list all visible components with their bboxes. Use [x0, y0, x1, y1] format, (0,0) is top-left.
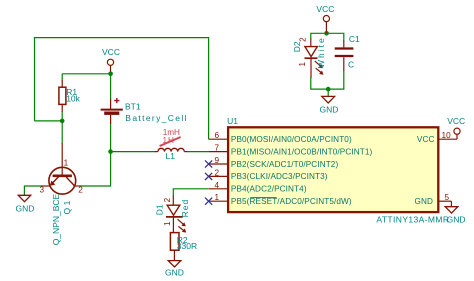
wire junction to L1	[111, 151, 156, 153]
svg-text:2: 2	[78, 185, 83, 194]
junction D2 loop top	[324, 31, 329, 36]
svg-text:BT1: BT1	[125, 102, 141, 112]
svg-text:L1: L1	[166, 151, 176, 161]
svg-text:4: 4	[215, 181, 220, 190]
wire D2 C1 loop top	[311, 33, 344, 41]
svg-text:U1: U1	[227, 116, 238, 126]
inductor L1	[155, 148, 187, 161]
LED D2	[292, 36, 326, 78]
wire left frame bottom	[35, 120, 63, 122]
junction R1 bottom	[60, 119, 65, 124]
junction battery L1	[108, 149, 113, 154]
junction VCC battery	[108, 72, 113, 77]
svg-text:PB4(ADC2/PCINT4): PB4(ADC2/PCINT4)	[231, 185, 307, 194]
ground top-right	[320, 96, 339, 114]
capacitor C1	[335, 34, 360, 71]
svg-text:Battery_Cell: Battery_Cell	[125, 113, 188, 123]
svg-text:White: White	[316, 36, 326, 68]
svg-text:10k: 10k	[66, 93, 80, 103]
wire D2 C1 loop bottom	[311, 71, 344, 90]
wire GND stub top-right	[327, 89, 329, 96]
U1 pin 7	[209, 151, 228, 153]
battery BT1	[101, 98, 188, 124]
svg-text:1: 1	[64, 159, 69, 168]
wire VCC to R1	[62, 73, 110, 75]
svg-text:PB5(RESET/ADC0/PCINT5/dW): PB5(RESET/ADC0/PCINT5/dW)	[231, 197, 352, 206]
svg-text:VCC: VCC	[102, 47, 120, 57]
svg-text:GND: GND	[320, 104, 339, 114]
svg-text:2: 2	[163, 197, 172, 202]
svg-text:PB2(SCK/ADC1/T0/PCINT2): PB2(SCK/ADC1/T0/PCINT2)	[231, 160, 339, 169]
resistor R1	[59, 80, 81, 112]
wire junction to Q1 base	[61, 121, 63, 144]
svg-text:GND: GND	[16, 203, 35, 213]
svg-text:GND: GND	[447, 214, 466, 224]
svg-text:1: 1	[298, 62, 307, 67]
power VCC top-left	[107, 59, 113, 74]
svg-text:2: 2	[215, 168, 220, 177]
svg-text:D1: D1	[154, 204, 164, 215]
svg-text:330R: 330R	[177, 241, 197, 251]
no-connect pin 2	[205, 173, 212, 180]
wire Q1 collector to junction	[80, 152, 111, 186]
power VCC top-right	[323, 16, 329, 34]
svg-text:PB3(CLKI/ADC3/PCINT3): PB3(CLKI/ADC3/PCINT3)	[231, 172, 328, 181]
U1 pin 2	[209, 175, 228, 177]
ground Q1	[16, 195, 35, 213]
no-connect pin 1	[205, 198, 212, 205]
resistor R2	[170, 233, 197, 261]
U1 pin 1	[209, 200, 228, 202]
ground U1	[445, 201, 465, 224]
svg-text:GND: GND	[415, 197, 434, 206]
wire battery top	[110, 74, 112, 100]
svg-text:1: 1	[163, 221, 172, 226]
ground R2	[165, 261, 184, 278]
U1 pin 10 VCC	[439, 138, 457, 140]
no-connect pin 9	[205, 160, 212, 167]
svg-text:1: 1	[215, 193, 220, 202]
svg-text:PB1(MISO/AIN1/OC0B/INT0/PCINT1: PB1(MISO/AIN1/OC0B/INT0/PCINT1)	[231, 147, 373, 156]
svg-text:VCC: VCC	[447, 116, 465, 126]
IC U1	[228, 127, 438, 212]
svg-text:ATTINY13A-MMR: ATTINY13A-MMR	[376, 214, 449, 224]
svg-text:D2: D2	[292, 41, 302, 52]
svg-text:C1: C1	[349, 34, 360, 44]
wire battery bottom	[110, 124, 112, 152]
svg-text:10: 10	[442, 131, 452, 140]
svg-text:GND: GND	[165, 267, 184, 277]
transistor Q1	[40, 143, 84, 245]
RESET overline	[250, 196, 276, 198]
svg-text:9: 9	[215, 156, 220, 165]
svg-text:2: 2	[298, 37, 307, 42]
svg-text:VCC: VCC	[417, 135, 435, 144]
junction loop bottom	[326, 87, 331, 92]
svg-text:Q1: Q1	[62, 198, 72, 214]
svg-text:Q_NPN_BCE: Q_NPN_BCE	[51, 193, 61, 245]
wire R1 bottom to junction	[61, 112, 63, 121]
wire Q1 emitter to GND	[24, 186, 42, 195]
power VCC U1	[454, 128, 460, 139]
svg-text:7: 7	[215, 144, 220, 153]
wire L1 to pin7	[187, 151, 209, 153]
wire R1 top	[61, 74, 63, 81]
wire top frame	[35, 38, 209, 140]
svg-text:5: 5	[445, 193, 450, 202]
U1 pin 5 GND	[439, 200, 452, 202]
LED D1	[154, 196, 190, 233]
svg-text:Red: Red	[180, 199, 190, 218]
svg-text:6: 6	[215, 131, 220, 140]
svg-text:PB0(MOSI/AIN0/OC0A/PCINT0): PB0(MOSI/AIN0/OC0A/PCINT0)	[231, 135, 352, 144]
wire pin4 to D1	[173, 189, 208, 197]
svg-text:C: C	[348, 60, 354, 70]
U1 pin 4	[209, 188, 228, 190]
U1 pin 9	[209, 163, 228, 165]
svg-text:3: 3	[40, 185, 45, 194]
U1 pin 6	[209, 138, 228, 140]
svg-text:VCC: VCC	[316, 4, 334, 14]
